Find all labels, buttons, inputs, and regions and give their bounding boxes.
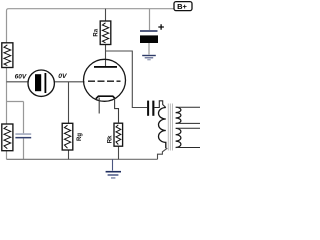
svg-text:Rg: Rg: [77, 133, 83, 141]
svg-text:B+: B+: [177, 2, 187, 11]
svg-text:Rk: Rk: [108, 135, 114, 143]
svg-text:Ra: Ra: [94, 28, 100, 36]
svg-text:0V: 0V: [58, 73, 68, 80]
svg-text:60V: 60V: [15, 74, 27, 81]
